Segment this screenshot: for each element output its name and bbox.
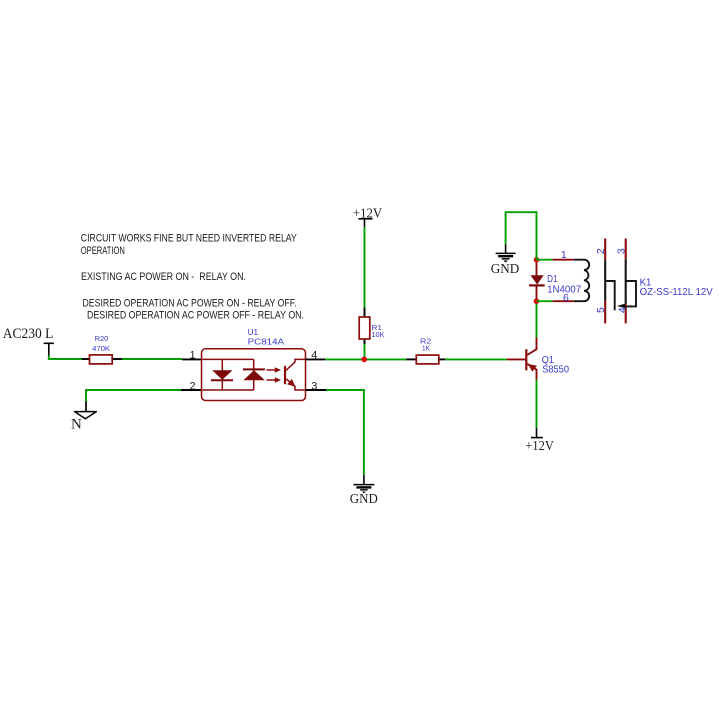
svg-text:OPERATION: OPERATION (81, 245, 125, 257)
wire R1 to junction (364, 344, 366, 360)
transistor Q1 S8550 (507, 338, 569, 380)
svg-text:10K: 10K (372, 330, 385, 339)
svg-text:GND: GND (350, 492, 378, 507)
resistor R20 (82, 334, 123, 364)
svg-text:6: 6 (563, 292, 569, 304)
relay K1 labels (640, 276, 713, 297)
svg-text:+12V: +12V (525, 439, 554, 454)
wire +12V to R1 (364, 227, 366, 307)
svg-text:DESIRED OPERATION AC POWER OFF: DESIRED OPERATION AC POWER OFF - RELAY O… (87, 310, 304, 322)
svg-text:1: 1 (561, 249, 567, 261)
U1 light arrow 2 (267, 377, 282, 382)
svg-text:5: 5 (595, 307, 607, 313)
junction dot (361, 357, 367, 363)
svg-text:DESIRED OPERATION AC POWER ON: DESIRED OPERATION AC POWER ON - RELAY OF… (83, 298, 297, 310)
svg-text:3: 3 (616, 248, 628, 254)
ground GND top right (491, 244, 520, 276)
U1 phototransistor (285, 359, 306, 390)
svg-text:R20: R20 (95, 334, 109, 343)
wire Q1 collector to D1 junction (536, 301, 538, 337)
wire R2 to Q1 base (445, 358, 507, 360)
relay contact right bracket with arrow (617, 281, 636, 308)
junction dot bottom of D1 (534, 298, 540, 304)
svg-text:U1: U1 (248, 327, 259, 337)
wire U1 pin 3 to GND (326, 390, 364, 475)
svg-text:1: 1 (190, 350, 196, 362)
U1 internal rails (202, 359, 254, 390)
wire U1 pin 2 to N ground (86, 390, 181, 403)
svg-text:2: 2 (595, 248, 607, 254)
wire D1 junction to GND top right (506, 212, 537, 260)
relay contact left step (605, 281, 615, 310)
svg-text:3: 3 (311, 380, 317, 392)
diode D1 1N4007 (529, 260, 581, 302)
svg-text:EXISTING AC POWER ON - RELAY: EXISTING AC POWER ON - RELAY ON. (81, 271, 246, 283)
wire R20 to U1 pin 1 (122, 358, 182, 360)
wire Q1 emitter to +12V (536, 380, 538, 428)
svg-text:4: 4 (311, 350, 317, 362)
svg-text:CIRCUIT WORKS FINE BUT NEED IN: CIRCUIT WORKS FINE BUT NEED INVERTED REL… (81, 233, 297, 245)
svg-text:N: N (71, 416, 82, 432)
resistor R2 (406, 337, 445, 364)
svg-text:OZ-SS-112L 12V: OZ-SS-112L 12V (640, 286, 713, 298)
svg-text:S8550: S8550 (542, 363, 569, 375)
op-amp U1 optocoupler PC814A box (202, 327, 306, 401)
ground N symbol (71, 402, 96, 433)
svg-text:AC230 L: AC230 L (3, 326, 54, 342)
ground GND bottom (350, 475, 378, 507)
relay contact pin 3-4 line (625, 239, 627, 324)
node AC230 L label (3, 326, 54, 357)
wire U1 pin4 to R2 (325, 358, 406, 360)
U1 light arrow 1 (267, 367, 282, 372)
relay K1 coil (574, 260, 589, 302)
resistor R1 (359, 307, 384, 344)
relay K1 coil wires (537, 260, 574, 302)
svg-text:PC814A: PC814A (248, 337, 285, 347)
svg-text:2: 2 (190, 380, 196, 392)
svg-text:1K: 1K (422, 343, 430, 352)
svg-text:470K: 470K (92, 344, 110, 353)
node +12V bottom (525, 428, 554, 454)
pin 1 stub U1 (182, 358, 201, 360)
svg-text:4: 4 (617, 307, 629, 313)
pin 3 stub U1 (306, 389, 327, 391)
pin 2 stub U1 (181, 389, 202, 391)
node +12V top (353, 207, 382, 227)
wire AC230 to R20 (49, 356, 82, 360)
note text block (81, 233, 304, 322)
junction dot top of D1 (534, 257, 540, 263)
relay contact pin 2-5 line (604, 239, 606, 324)
U1 left LED (down) (211, 370, 233, 380)
svg-text:GND: GND (491, 261, 520, 276)
pin 4 stub U1 (306, 358, 326, 360)
U1 right LED (up) (243, 369, 265, 380)
